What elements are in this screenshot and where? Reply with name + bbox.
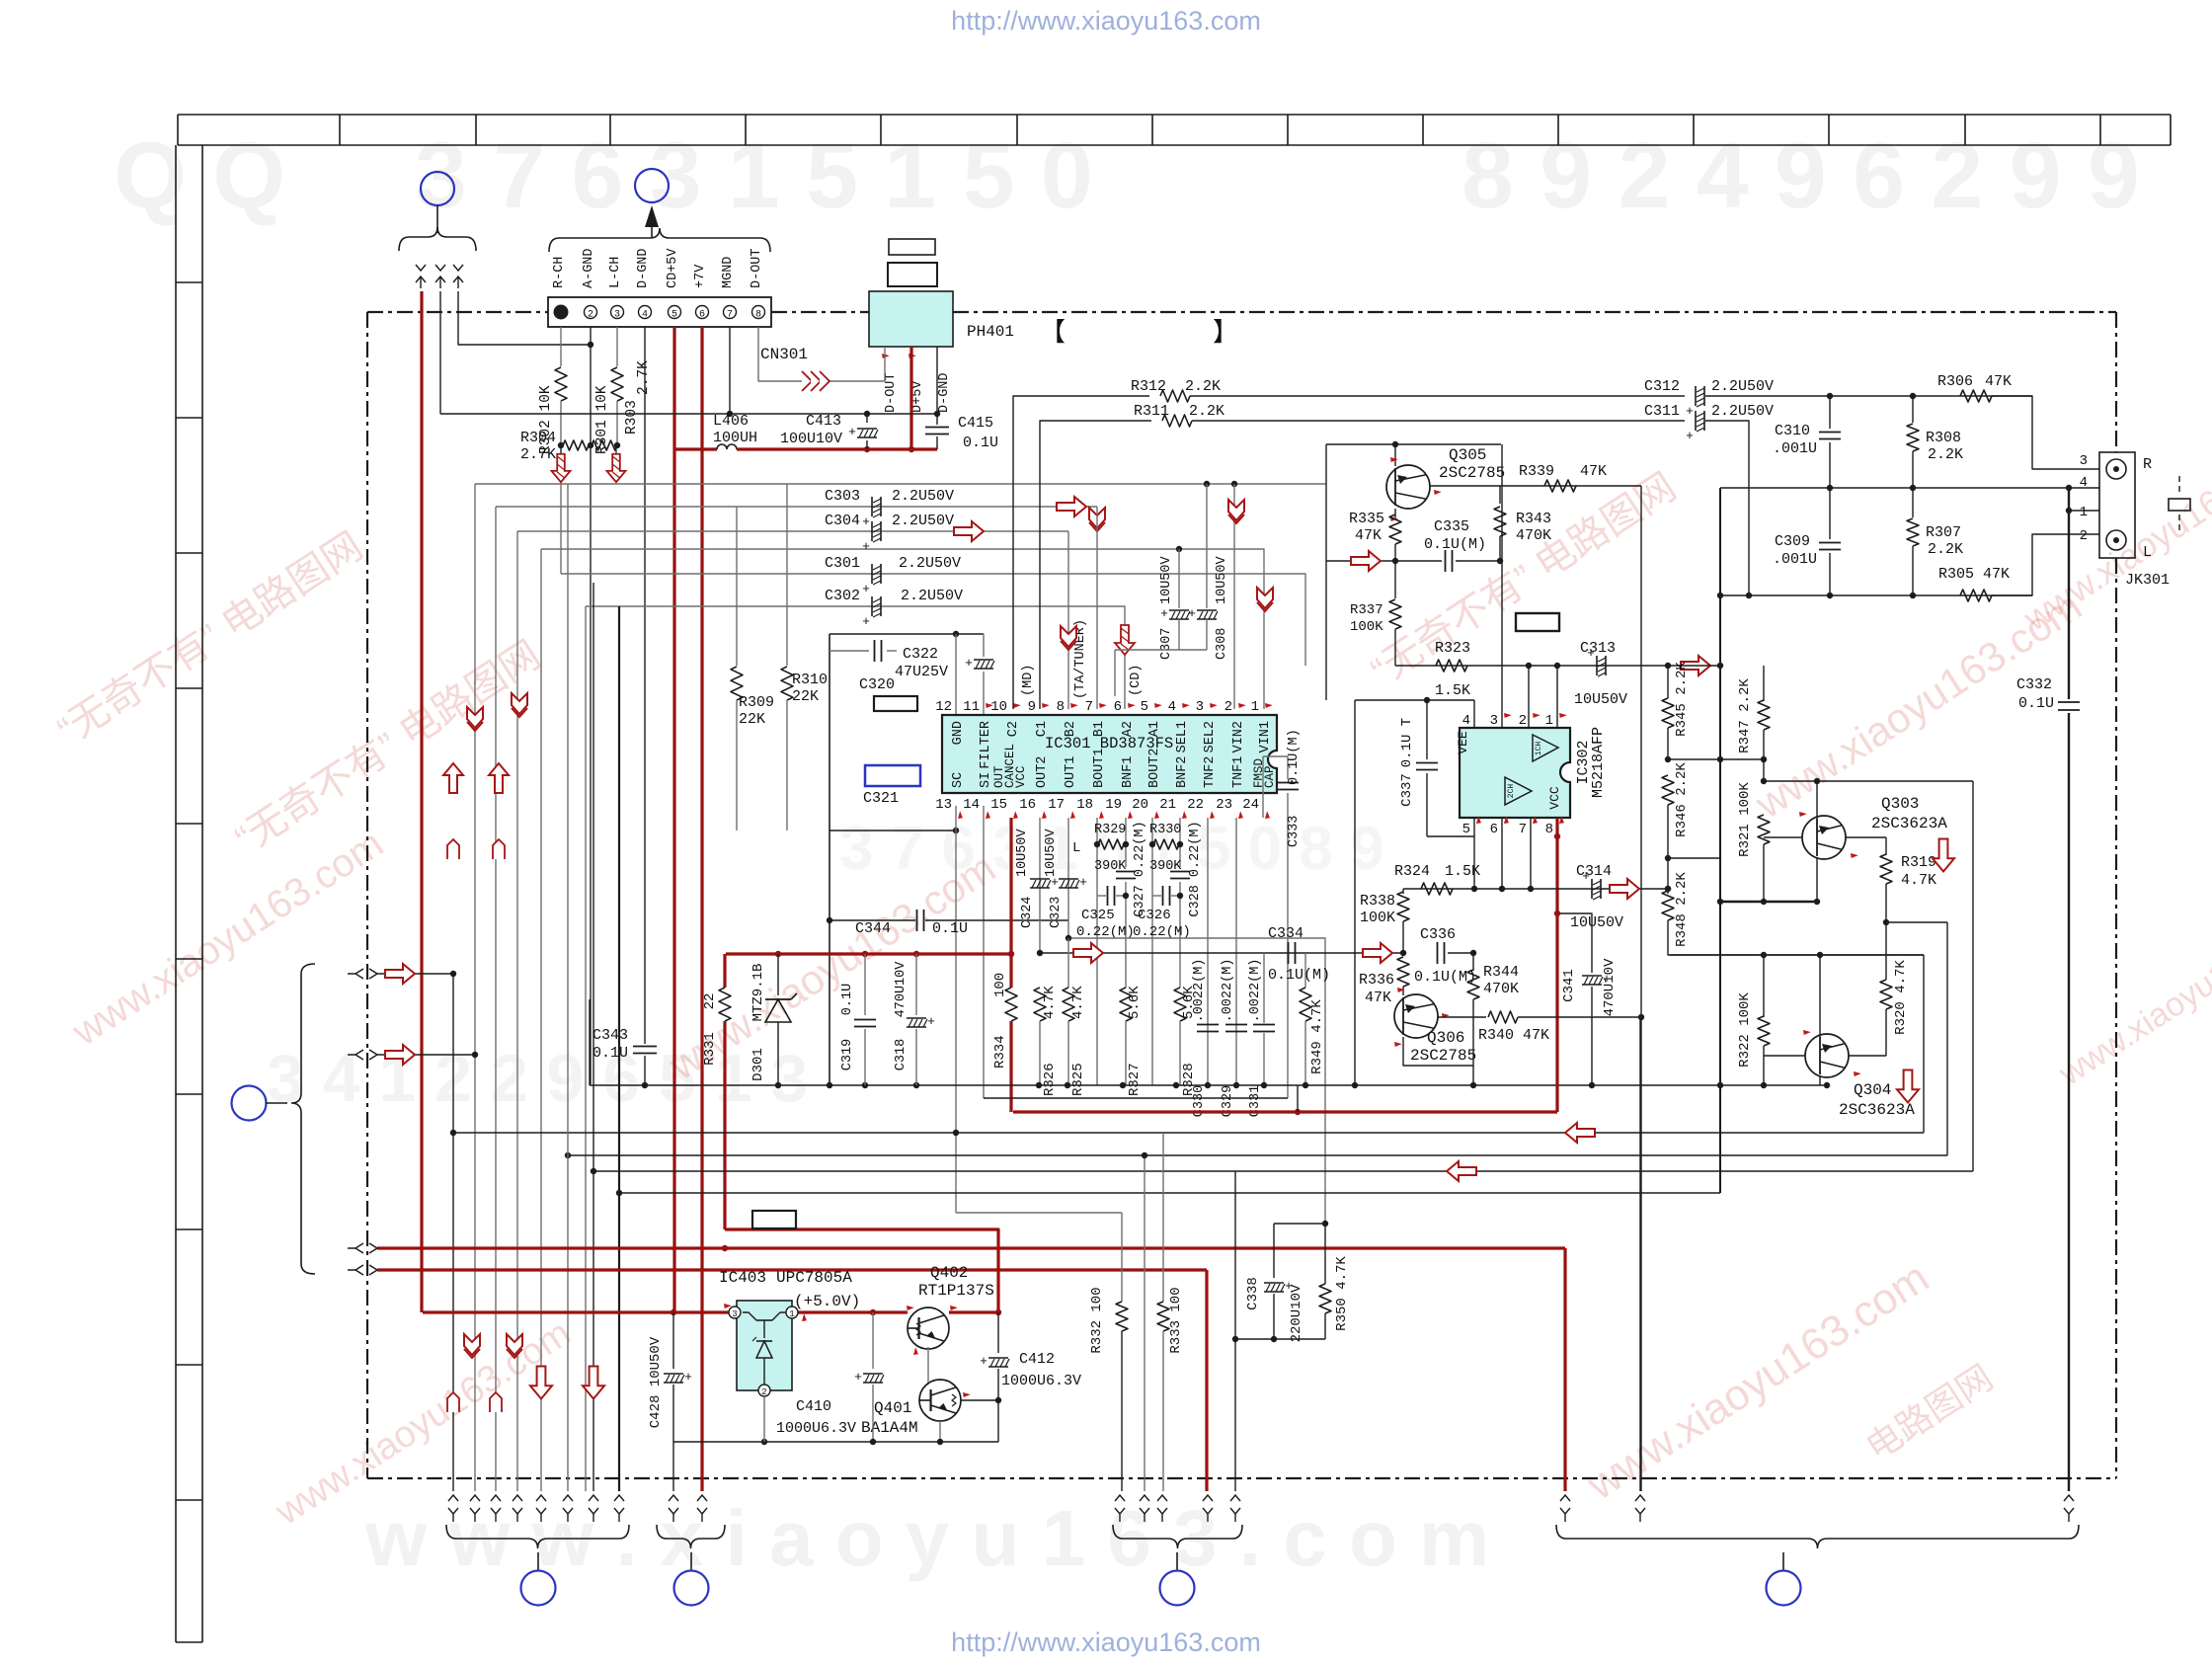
capacitor C428 <box>672 1312 674 1369</box>
wire row B <box>1720 594 2032 596</box>
svg-text:A2: A2 <box>1121 721 1136 737</box>
wire row C307 <box>1176 546 1182 552</box>
svg-text:0.1U(M): 0.1U(M) <box>1268 967 1330 984</box>
test rect above IC403 <box>752 1211 796 1228</box>
wire long row 1 <box>453 1132 1924 1134</box>
svg-text:C321: C321 <box>863 790 899 807</box>
svg-text:C410: C410 <box>796 1398 831 1415</box>
connector circle D <box>521 1571 556 1606</box>
mid cups <box>447 839 459 859</box>
capacitor C308 <box>1197 609 1217 611</box>
svg-text:470U10V: 470U10V <box>894 961 908 1018</box>
brace bottom 3 <box>1113 1525 1242 1548</box>
svg-text:470K: 470K <box>1516 527 1551 544</box>
arrow right R323 row <box>1681 656 1710 675</box>
svg-text:4.7K: 4.7K <box>1042 986 1058 1019</box>
svg-text:+: + <box>862 614 870 629</box>
arrow left row3 <box>1447 1161 1476 1181</box>
svg-text:2.2K: 2.2K <box>1928 541 1963 558</box>
arrow right C335 row <box>1326 560 1395 562</box>
capacitor C322 <box>983 634 985 657</box>
svg-text:BNF2: BNF2 <box>1175 756 1190 788</box>
wire pin19 col <box>1125 818 1127 867</box>
arrow right near pin7 <box>1057 497 1086 516</box>
capacitor C331 <box>1253 1024 1275 1026</box>
wire D-GND column <box>644 327 646 1040</box>
svg-text:1CH: 1CH <box>1535 742 1543 756</box>
wire pin20 col <box>1151 818 1153 1085</box>
svg-text:C415: C415 <box>958 415 993 432</box>
resistor R321 <box>1758 815 1770 844</box>
wire Q305 right wall <box>1640 486 1642 1491</box>
capacitor C312 <box>1695 386 1697 406</box>
svg-text:A-GND: A-GND <box>582 248 596 288</box>
wire red bus drop right <box>1563 1248 1566 1491</box>
svg-text:14: 14 <box>963 797 980 813</box>
resistor R339 <box>1544 480 1576 492</box>
wire R344 col <box>1472 953 1474 971</box>
wire row C303 <box>496 506 1097 508</box>
svg-text:R344: R344 <box>1483 964 1519 981</box>
svg-text:3: 3 <box>2080 453 2088 469</box>
wire PH401 D-OUT <box>884 347 886 381</box>
svg-text:8: 8 <box>1545 822 1553 837</box>
wire PH401 D+5V red <box>909 347 912 449</box>
svg-text:(MD): (MD) <box>1021 665 1036 696</box>
wire pin2 to D-GND row <box>439 291 441 414</box>
wire A-GND column <box>590 327 592 1084</box>
wire col 593 <box>585 606 587 1491</box>
svg-text:22K: 22K <box>739 711 765 728</box>
svg-text:R334: R334 <box>992 1035 1008 1069</box>
connector circle A <box>421 172 454 205</box>
connector circle E <box>674 1571 709 1606</box>
svg-text:http://www.xiaoyu163.com: http://www.xiaoyu163.com <box>951 6 1261 36</box>
wire long row 2 <box>568 1154 1947 1156</box>
svg-text:C428 10U50V: C428 10U50V <box>648 1336 664 1428</box>
svg-text:1000U6.3V: 1000U6.3V <box>1001 1373 1081 1389</box>
svg-text:47K: 47K <box>1355 527 1382 544</box>
svg-text:+: + <box>927 1014 935 1029</box>
wire bottom row 1460 <box>673 1441 998 1443</box>
wire pin18 col <box>1096 818 1098 1085</box>
wire col 575 <box>567 484 569 1491</box>
svg-text:R-CH: R-CH <box>552 257 567 288</box>
svg-text:C319: C319 <box>840 1039 855 1070</box>
svg-text:(CD): (CD) <box>1129 665 1144 696</box>
resistor R329 <box>1098 839 1124 849</box>
svg-text:10U50V: 10U50V <box>1015 828 1030 877</box>
board boundary dash-dot <box>367 311 548 313</box>
svg-text:2.2U50V: 2.2U50V <box>1711 378 1774 395</box>
svg-text:C2: C2 <box>1006 721 1021 737</box>
transistor Q305 2SC2785 <box>1394 444 1396 466</box>
svg-text:PH401: PH401 <box>967 323 1014 341</box>
svg-text:L: L <box>2143 544 2152 561</box>
svg-text:1: 1 <box>2080 505 2088 520</box>
bottom pin group2 <box>669 1495 678 1501</box>
resistor R332 <box>1121 1213 1123 1302</box>
svg-text:R309: R309 <box>739 694 774 711</box>
svg-text:R345 2.2K: R345 2.2K <box>1674 662 1690 737</box>
svg-text:C328 0.22(M): C328 0.22(M) <box>1188 821 1203 916</box>
svg-text:GND: GND <box>951 721 966 745</box>
left pin row1 <box>348 969 363 979</box>
svg-text:R307: R307 <box>1926 524 1961 541</box>
svg-text:10U50V: 10U50V <box>1574 691 1627 708</box>
svg-text:18: 18 <box>1076 797 1093 813</box>
CN301 pin 3 <box>611 306 624 319</box>
svg-text:R347 2.2K: R347 2.2K <box>1737 678 1753 753</box>
svg-text:L406: L406 <box>713 413 749 430</box>
resistor R348 <box>1667 858 1669 894</box>
svg-text:0.1U: 0.1U <box>932 920 968 937</box>
ground rail <box>590 1084 1827 1086</box>
svg-text:+: + <box>862 582 870 596</box>
capacitor C327 <box>1116 871 1136 873</box>
capacitor C329 <box>1225 1024 1247 1026</box>
op-amp 1CH <box>1533 735 1558 761</box>
svg-text:FILTER: FILTER <box>979 721 993 769</box>
IC403 internals <box>743 1312 756 1320</box>
wire row A riser <box>1719 488 1721 595</box>
capacitor C337 <box>1426 700 1428 759</box>
title band left <box>175 145 177 1642</box>
arrow triple chevron D-OUT <box>802 371 812 391</box>
brace CN301 <box>549 228 770 252</box>
svg-text:2: 2 <box>2080 528 2088 544</box>
svg-text:R306: R306 <box>1937 373 1973 390</box>
svg-text:VIN1: VIN1 <box>1258 721 1273 752</box>
svg-text:0.1U: 0.1U <box>963 435 998 451</box>
wire row SC <box>829 830 956 831</box>
wire R324 row <box>1403 888 1668 890</box>
wire red bus row1 <box>377 1246 1565 1249</box>
svg-text:http://www.xiaoyu163.com: http://www.xiaoyu163.com <box>951 1627 1261 1657</box>
wire pin4 to C337 row <box>1473 700 1475 728</box>
wire row 934 <box>1886 921 1947 923</box>
svg-text:3 7 6 3 1 5 1 5 0: 3 7 6 3 1 5 1 5 0 <box>415 123 1093 228</box>
svg-text:C326: C326 <box>1138 908 1171 923</box>
svg-text:1.5K: 1.5K <box>1445 863 1480 880</box>
connector CN301 <box>548 297 771 327</box>
wire pin16 col <box>1039 818 1041 952</box>
svg-text:C412: C412 <box>1019 1351 1055 1368</box>
capacitor C314 <box>1591 879 1593 899</box>
arrow right C336 row <box>1363 943 1392 963</box>
svg-text:SC: SC <box>951 772 966 788</box>
svg-text:11: 11 <box>963 699 980 715</box>
svg-text:C341: C341 <box>1561 969 1577 1002</box>
svg-text:C334: C334 <box>1268 925 1303 942</box>
inductor L406 <box>674 447 717 450</box>
brace top-left 3pin <box>399 227 476 251</box>
wire row 913 bold <box>1720 901 1817 903</box>
svg-text:SEL2: SEL2 <box>1203 721 1218 752</box>
resistor R310 <box>786 484 788 666</box>
svg-text:2SC2785: 2SC2785 <box>1439 464 1505 482</box>
svg-text:C322: C322 <box>903 646 938 663</box>
svg-text:R303: R303 <box>624 400 640 435</box>
svg-text:R310: R310 <box>792 672 828 688</box>
wire row to VIN1 <box>541 549 1264 709</box>
capacitor C332 <box>2058 701 2080 703</box>
capacitor C324 <box>1030 878 1050 880</box>
svg-text:2.2U50V: 2.2U50V <box>1711 403 1774 420</box>
svg-text:Q401: Q401 <box>874 1399 911 1417</box>
svg-text:0.1U(M): 0.1U(M) <box>1414 969 1476 986</box>
svg-text:4: 4 <box>1168 699 1176 715</box>
connector circle G <box>1767 1571 1801 1606</box>
wire pin13 SC col <box>955 806 957 1213</box>
wire R311 row <box>1040 421 1151 709</box>
CN301 pin 5 <box>669 306 681 319</box>
wire row 791 <box>1764 780 1973 782</box>
svg-text:10U50V: 10U50V <box>1215 555 1229 604</box>
svg-text:R323: R323 <box>1435 640 1470 657</box>
svg-text:20: 20 <box>1132 797 1148 813</box>
wire pin12 GND <box>955 634 957 715</box>
white rect IC302 zone <box>1516 613 1559 631</box>
svg-text:16: 16 <box>1019 797 1036 813</box>
svg-text:4: 4 <box>1462 713 1470 729</box>
svg-text:9: 9 <box>1028 699 1036 715</box>
arrow down right2 <box>1897 1070 1919 1103</box>
svg-text:VEE: VEE <box>1456 731 1470 754</box>
svg-text:1.5K: 1.5K <box>1435 682 1470 699</box>
wire 869 link <box>1668 857 1720 859</box>
wire pin24 col <box>1262 756 1264 818</box>
resistor R326 <box>1034 988 1046 1021</box>
blue rect C321 <box>865 765 920 786</box>
capacitor C412 <box>997 1312 999 1353</box>
resistor R327 <box>1120 988 1132 1021</box>
resistor R349 <box>1304 953 1306 988</box>
brace bottom 4 <box>1556 1525 2079 1548</box>
wire pin22 col <box>1207 818 1209 1085</box>
svg-text:C323: C323 <box>1049 897 1064 928</box>
wire R312 row <box>1013 396 1149 709</box>
svg-text:JK301: JK301 <box>2125 572 2170 589</box>
svg-text:470K: 470K <box>1483 981 1519 997</box>
IC403 regulator UPC7805A <box>737 1301 792 1390</box>
resistor R335 <box>1394 509 1396 517</box>
capacitor C310 <box>1829 396 1831 429</box>
capacitor C338 R350 pair <box>1274 1223 1325 1225</box>
capacitor C333 <box>1263 756 1288 779</box>
svg-text:5: 5 <box>671 310 677 321</box>
capacitor C320 <box>829 650 869 652</box>
wire row 1356 <box>1235 1338 1325 1340</box>
arrow right C314 row <box>1610 879 1639 899</box>
resistor R324 <box>1421 883 1453 895</box>
resistor R331 <box>723 954 726 988</box>
resistor R336 <box>1397 957 1409 987</box>
wire R-CH column <box>560 327 562 366</box>
svg-text:C1: C1 <box>1035 721 1050 737</box>
svg-text:220U10V: 220U10V <box>1289 1284 1304 1342</box>
svg-text:D-OUT: D-OUT <box>750 248 764 288</box>
connector circle F <box>1160 1571 1195 1606</box>
wire branch C308 <box>1204 481 1210 487</box>
brace bottom 1 <box>446 1525 629 1548</box>
wire col 1251 <box>1234 1171 1236 1491</box>
svg-text:R348 2.2K: R348 2.2K <box>1674 872 1690 947</box>
svg-text:1000U6.3V: 1000U6.3V <box>776 1420 856 1437</box>
svg-text:R350 4.7K: R350 4.7K <box>1334 1256 1350 1331</box>
resistor R304 <box>563 440 589 450</box>
wire branch pin2 <box>1231 481 1237 487</box>
mid arrows left chevrons <box>467 707 483 728</box>
svg-text:C318: C318 <box>894 1039 908 1070</box>
svg-text:M5218AFP: M5218AFP <box>1590 727 1607 798</box>
mid arrows up <box>443 763 463 793</box>
resistor R312 <box>1160 390 1190 402</box>
svg-text:R301 10K: R301 10K <box>594 385 610 454</box>
svg-text:.0022(M): .0022(M) <box>1192 959 1207 1023</box>
svg-text:SI: SI <box>979 772 993 788</box>
svg-text:47K: 47K <box>1580 463 1607 480</box>
wire red 7805 row <box>423 1310 908 1313</box>
capacitor C311 <box>1695 411 1697 431</box>
resistor R333 <box>1162 1133 1164 1302</box>
svg-text:2.2U50V: 2.2U50V <box>892 513 954 529</box>
IC IC302 M5218AFP <box>1460 728 1570 818</box>
svg-text:OUT2: OUT2 <box>1035 756 1050 788</box>
svg-text:L-CH: L-CH <box>608 257 623 288</box>
svg-text:BOUT1: BOUT1 <box>1092 748 1107 788</box>
svg-text:+7V: +7V <box>693 264 708 288</box>
svg-text:BA1A4M: BA1A4M <box>861 1419 918 1437</box>
resistor R322 <box>1763 955 1765 1017</box>
wire PH401 D-GND <box>936 347 938 414</box>
svg-text:C307: C307 <box>1159 628 1174 660</box>
rail2 <box>984 1097 1288 1099</box>
capacitor C318 <box>915 954 917 1015</box>
bottom pin group1 <box>448 1495 458 1501</box>
svg-text:C338: C338 <box>1245 1277 1261 1310</box>
wire JK pin1 <box>2069 510 2099 512</box>
svg-text:13: 13 <box>935 797 952 813</box>
svg-text:0.1U: 0.1U <box>592 1045 628 1062</box>
svg-text:2SC2785: 2SC2785 <box>1410 1047 1476 1065</box>
svg-text:+: + <box>862 515 870 529</box>
svg-text:100: 100 <box>992 973 1008 997</box>
svg-text:R338: R338 <box>1360 893 1395 910</box>
wire long row 4 <box>619 1192 1720 1194</box>
svg-text:C314: C314 <box>1576 863 1612 880</box>
svg-text:19: 19 <box>1105 797 1122 813</box>
wire pin8 red <box>1555 818 1558 1112</box>
wire Q306 box left <box>1354 700 1356 1085</box>
svg-text:1: 1 <box>1251 699 1259 715</box>
resistor R319 <box>1885 837 1887 855</box>
svg-text:8: 8 <box>755 310 761 321</box>
wire Q305 box top <box>1326 443 1501 445</box>
svg-text:100UH: 100UH <box>713 430 757 446</box>
IC IC301 BD3873FS <box>942 715 1277 793</box>
svg-text:24: 24 <box>1242 797 1259 813</box>
capacitor C415 <box>936 414 938 425</box>
wire col 1661 <box>1639 1017 1641 1491</box>
transistor Q401 BA1A4M <box>919 1380 961 1421</box>
capacitor C328 <box>1170 871 1190 873</box>
svg-text:5.6K: 5.6K <box>1127 986 1143 1019</box>
brace left mid <box>291 964 315 1274</box>
svg-text:2.2U50V: 2.2U50V <box>901 588 963 604</box>
svg-text:0.1U: 0.1U <box>2018 695 2054 712</box>
CN301 pin 2 <box>585 306 597 319</box>
svg-text:【: 【 <box>1040 319 1066 349</box>
wire R305 to JK2 <box>1992 534 2099 595</box>
svg-text:R: R <box>2143 456 2152 473</box>
wire Q306 bottom <box>1403 1037 1473 1066</box>
svg-text:+: + <box>1160 606 1168 621</box>
svg-text:VIN2: VIN2 <box>1231 721 1246 752</box>
svg-text:Q303: Q303 <box>1881 795 1919 813</box>
wire C311 to row B <box>1705 421 1749 595</box>
svg-text:BOUT2: BOUT2 <box>1147 748 1162 788</box>
wire pin21 col <box>1179 818 1181 867</box>
svg-text:22: 22 <box>702 993 718 1010</box>
wire row to Q305 stage <box>475 483 1326 485</box>
wire col 459 <box>452 974 454 1491</box>
svg-text:+: + <box>1686 429 1694 443</box>
svg-text:4: 4 <box>642 310 648 321</box>
svg-text:4.7K: 4.7K <box>1070 986 1086 1019</box>
svg-text:C337: C337 <box>1399 773 1415 807</box>
svg-text:22: 22 <box>1187 797 1204 813</box>
svg-text:R330: R330 <box>1149 823 1181 837</box>
svg-text:R327: R327 <box>1127 1063 1143 1096</box>
svg-text:R336: R336 <box>1359 972 1394 989</box>
svg-text:SEL1: SEL1 <box>1175 721 1190 752</box>
svg-text:C335: C335 <box>1434 518 1469 535</box>
svg-text:470U10V: 470U10V <box>1602 958 1618 1016</box>
resistor R343 <box>1499 486 1501 504</box>
arrow right row mid <box>1073 943 1103 963</box>
wire col 524 <box>516 531 518 1491</box>
svg-text:100K: 100K <box>1360 910 1395 926</box>
svg-text:A1: A1 <box>1147 721 1162 737</box>
wire pin1 col <box>1556 666 1558 728</box>
left pin row4 red <box>348 1265 363 1275</box>
svg-text:R324: R324 <box>1394 863 1430 880</box>
svg-text:2.2K: 2.2K <box>1928 446 1963 463</box>
svg-text:C304: C304 <box>825 513 860 529</box>
wire col 1159 <box>1144 1155 1145 1491</box>
zener D301 MTZ9.1B <box>777 954 779 995</box>
wire col 502 <box>495 507 497 1491</box>
capacitor C413 <box>866 414 868 423</box>
wire riser 1998 <box>1972 781 1974 1171</box>
svg-text:CD+5V: CD+5V <box>666 248 680 288</box>
svg-text:C309: C309 <box>1775 533 1810 550</box>
wire R-CH red vertical <box>420 291 423 1312</box>
wire row 642 to C322 <box>829 633 984 635</box>
wire IC403 pin2 <box>763 1396 765 1442</box>
capacitor C313 <box>1596 656 1598 675</box>
capacitor C410 <box>872 1312 874 1369</box>
svg-text:23: 23 <box>1216 797 1232 813</box>
svg-text:R329: R329 <box>1094 823 1126 837</box>
transistor Q303 2SC3623A <box>1816 781 1818 819</box>
svg-text:100K: 100K <box>1350 619 1383 635</box>
svg-text:R337: R337 <box>1350 602 1383 618</box>
wire Q401 right <box>961 1399 998 1401</box>
resistor R347 <box>1763 666 1765 701</box>
resistor R303 <box>592 440 617 450</box>
